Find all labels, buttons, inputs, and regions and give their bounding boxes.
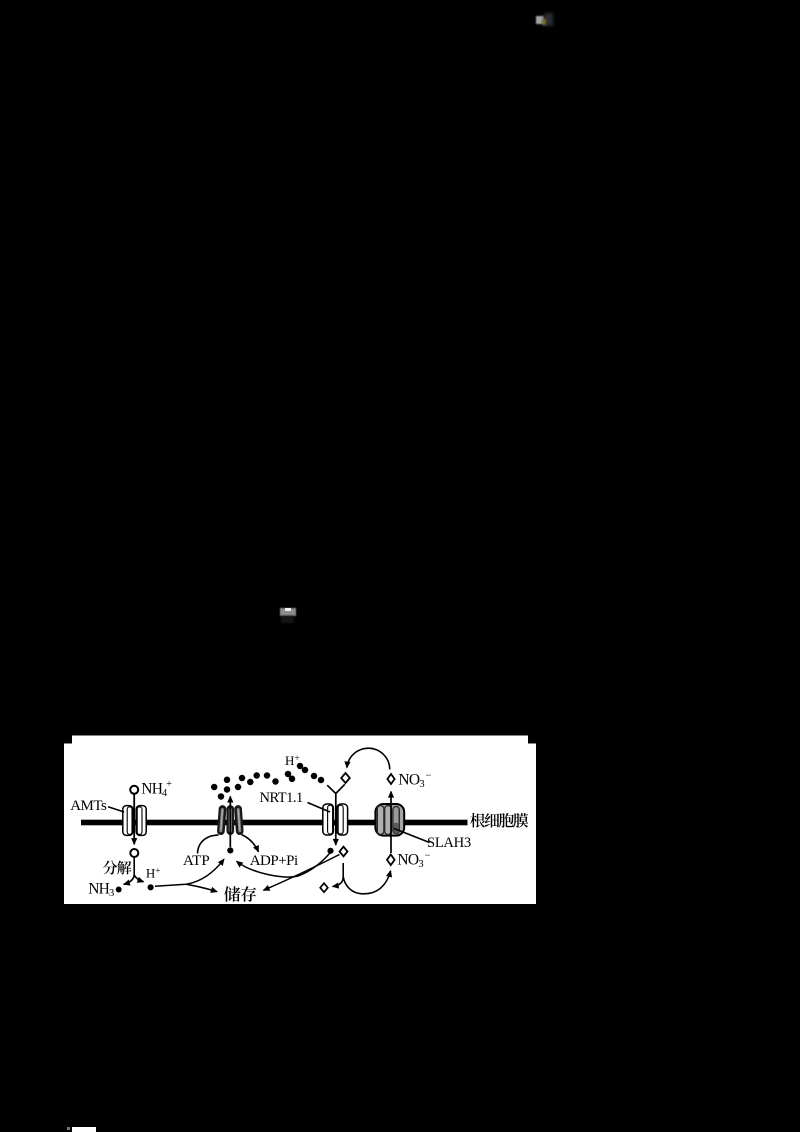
ATP arc: [198, 835, 219, 854]
svg-text:SLAH3: SLAH3: [427, 835, 471, 851]
membrane label 根细胞膜: [470, 813, 528, 828]
H+ line to fork: [155, 859, 224, 886]
U arc to lower NO3-: [343, 871, 390, 894]
central H+ dot: [227, 847, 233, 853]
AMTs channel: [123, 806, 146, 836]
ADP arc: [242, 835, 259, 852]
NH3 dot: [116, 887, 122, 893]
diamond below NRT1.1: [340, 847, 348, 857]
label 分解: [103, 860, 131, 874]
proton pump: [221, 809, 240, 831]
NRT1.1 pointer: [308, 803, 331, 813]
artifact: middle gray rect: [280, 608, 296, 616]
line below diamond + fork: [333, 863, 344, 887]
SLAH3 pointer: [394, 829, 430, 843]
SLAH3 channel: [375, 804, 404, 836]
NH4+ circle: [130, 786, 138, 794]
white panel with notched top corners: [64, 736, 536, 905]
pump arrow: [229, 796, 231, 847]
diamond top right: [387, 774, 394, 784]
membrane: [81, 820, 468, 826]
AMTs pointer: [108, 807, 124, 812]
artifact: bottom white bar: [72, 1127, 96, 1132]
dot below NRT1.1: [327, 848, 333, 854]
curve: dot to central dot: [237, 854, 330, 877]
SLAH3 arrow up: [390, 792, 392, 853]
curve: diamond to 储存: [264, 855, 340, 891]
H+ dot: [148, 884, 154, 890]
artifact: top gray square: [536, 16, 544, 25]
H+ dots arc above pump: [211, 763, 324, 800]
分解 fork: [124, 858, 134, 885]
arrow through AMTs: [133, 795, 135, 845]
NRT1.1 channel: [323, 804, 348, 835]
lower NO3- diamond: [387, 855, 395, 866]
svg-text:NRT1.1: NRT1.1: [260, 790, 304, 806]
svg-text:ATP: ATP: [183, 853, 210, 869]
NRT1.1 Y fork + arrow: [327, 785, 336, 845]
diamond above NRT1.1: [341, 773, 350, 783]
top arc between diamonds: [347, 748, 390, 769]
diagram: [64, 735, 536, 904]
lower circle: [130, 849, 138, 857]
label 储存: [224, 886, 256, 902]
small diamond: [320, 883, 328, 892]
svg-text:AMTs: AMTs: [70, 798, 107, 814]
svg-text:ADP+Pi: ADP+Pi: [250, 853, 298, 869]
